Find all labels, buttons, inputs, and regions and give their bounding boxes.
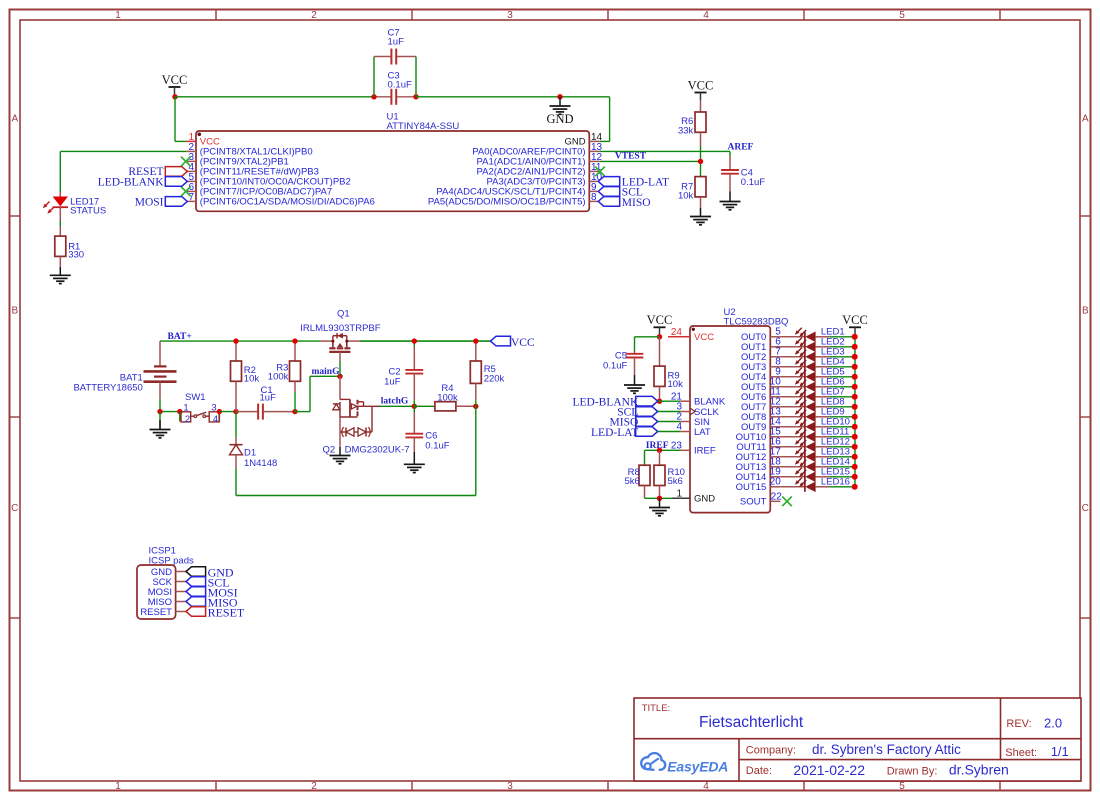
svg-text:Fietsachterlicht: Fietsachterlicht bbox=[699, 714, 804, 731]
wire LED VCC rail bbox=[854, 337, 856, 487]
svg-text:1/1: 1/1 bbox=[1051, 744, 1069, 759]
LED LED4 bbox=[780, 357, 857, 373]
svg-text:Sheet:: Sheet: bbox=[1005, 747, 1037, 759]
svg-text:VCC: VCC bbox=[688, 78, 714, 92]
resistor R7 10k bbox=[678, 177, 706, 208]
svg-text:Drawn By:: Drawn By: bbox=[887, 766, 938, 778]
node R3 top bbox=[292, 338, 297, 343]
svg-text:B: B bbox=[1082, 306, 1089, 317]
ground (U2) bbox=[649, 498, 670, 516]
node C2 top bbox=[412, 338, 417, 343]
node latchG C2 bbox=[412, 404, 417, 409]
wire U1 pin2 to LED17 bbox=[60, 151, 186, 192]
resistor R2 10k bbox=[231, 341, 260, 412]
svg-text:0.1uF: 0.1uF bbox=[388, 79, 412, 90]
wire LED17 to R1 bbox=[59, 221, 61, 226]
net flag SCL (U1) bbox=[598, 187, 643, 199]
svg-text:RESET: RESET bbox=[208, 606, 245, 620]
svg-text:MISO: MISO bbox=[622, 197, 651, 209]
wire R6-R7 bbox=[700, 146, 702, 177]
ground (C4) bbox=[720, 192, 741, 210]
resistor R3 100k bbox=[268, 341, 301, 412]
svg-text:VCC: VCC bbox=[162, 73, 188, 87]
wire VTEST bbox=[599, 160, 700, 162]
no-connect X U1 pin11 bbox=[595, 167, 605, 177]
net flag MISO (U2) bbox=[610, 417, 680, 429]
logo EasyEDA bbox=[641, 753, 728, 774]
node R2 top bbox=[233, 338, 238, 343]
svg-text:mainG: mainG bbox=[312, 367, 341, 377]
IC U1 ATTINY84A-SSU bbox=[186, 112, 602, 212]
svg-text:3: 3 bbox=[507, 10, 513, 21]
net flag RESET bbox=[128, 166, 187, 178]
svg-text:Company:: Company: bbox=[746, 745, 796, 757]
LED LED17 STATUS bbox=[43, 192, 106, 221]
svg-text:IREF: IREF bbox=[694, 446, 716, 457]
transistor Q1 IRLML9303TRPBF bbox=[300, 308, 380, 376]
svg-text:SW1: SW1 bbox=[185, 392, 206, 403]
net flag LED-BLANK (U1) bbox=[98, 176, 188, 188]
wire mainG bbox=[295, 376, 340, 411]
svg-text:VCC: VCC bbox=[694, 332, 714, 343]
capacitor C2 1uF bbox=[384, 341, 423, 406]
svg-text:AREF: AREF bbox=[728, 143, 754, 153]
power flag VCC (R6) bbox=[688, 78, 714, 100]
net flag LED-LAT (U2) bbox=[591, 427, 680, 439]
svg-text:1: 1 bbox=[183, 402, 188, 413]
svg-text:LED-BLANK: LED-BLANK bbox=[98, 176, 164, 188]
svg-text:4: 4 bbox=[213, 414, 218, 425]
net flag MOSI (ICSP) bbox=[186, 586, 238, 600]
LED LED11 bbox=[780, 427, 857, 443]
svg-text:LAT: LAT bbox=[694, 427, 711, 438]
svg-text:BAT+: BAT+ bbox=[168, 332, 192, 342]
node IREF bbox=[657, 448, 662, 453]
svg-text:A: A bbox=[1082, 114, 1089, 125]
LED LED13 bbox=[780, 447, 857, 463]
svg-text:BATTERY18650: BATTERY18650 bbox=[73, 383, 142, 394]
svg-text:100k: 100k bbox=[268, 372, 289, 383]
power flag VCC (LED rail) bbox=[842, 313, 868, 337]
svg-text:A: A bbox=[11, 114, 18, 125]
resistor R6 33k bbox=[678, 100, 706, 146]
net flag MISO (U1) bbox=[598, 197, 650, 209]
LED LED3 bbox=[780, 347, 857, 363]
LED LED7 bbox=[780, 387, 857, 403]
svg-text:Q2: Q2 bbox=[323, 444, 336, 455]
svg-text:OUT15: OUT15 bbox=[736, 482, 767, 493]
svg-text:5: 5 bbox=[899, 10, 905, 21]
svg-text:dr. Sybren's Factory Attic: dr. Sybren's Factory Attic bbox=[812, 742, 961, 757]
svg-text:5: 5 bbox=[899, 781, 905, 792]
svg-text:3: 3 bbox=[211, 402, 216, 413]
svg-text:1uF: 1uF bbox=[388, 36, 405, 47]
ground (C5) bbox=[624, 375, 645, 393]
svg-text:0.1uF: 0.1uF bbox=[741, 177, 765, 188]
net flag GND (ICSP) bbox=[186, 566, 234, 580]
wire VCC rail top bbox=[175, 96, 374, 98]
LED LED2 bbox=[780, 337, 857, 353]
LED LED6 bbox=[780, 377, 857, 393]
net flag MOSI (U1) bbox=[135, 196, 188, 208]
svg-text:22: 22 bbox=[771, 492, 783, 503]
node R3 bottom bbox=[292, 409, 297, 414]
power flag VCC (U1) bbox=[162, 73, 188, 97]
switch SW1 bbox=[177, 392, 219, 425]
svg-text:DMG2302UK-7: DMG2302UK-7 bbox=[345, 444, 410, 455]
capacitor C4 0.1uF bbox=[721, 157, 765, 192]
svg-text:4: 4 bbox=[703, 781, 709, 792]
svg-text:4: 4 bbox=[703, 10, 709, 21]
svg-text:EasyEDA: EasyEDA bbox=[667, 759, 728, 775]
node C3 left bbox=[371, 94, 376, 99]
svg-text:1uF: 1uF bbox=[260, 393, 277, 404]
battery BAT1 BATTERY18650 bbox=[73, 341, 176, 399]
resistor R9 10k bbox=[654, 337, 683, 401]
net label latchG bbox=[381, 396, 409, 406]
node mainG bbox=[337, 374, 342, 379]
ground (R1) bbox=[50, 267, 71, 284]
svg-text:24: 24 bbox=[671, 327, 683, 338]
svg-text:220k: 220k bbox=[484, 373, 505, 384]
ground (battery) bbox=[150, 412, 171, 438]
resistor R8 5k6 bbox=[624, 465, 650, 498]
net label AREF bbox=[728, 143, 754, 153]
svg-text:VCC: VCC bbox=[842, 313, 868, 327]
net label VTEST bbox=[615, 152, 647, 162]
wire rail right of Q1 bbox=[360, 340, 491, 342]
svg-text:REV:: REV: bbox=[1006, 718, 1031, 730]
capacitor C5 0.1uF bbox=[603, 351, 643, 376]
wire AREF bbox=[599, 151, 730, 156]
svg-text:(PCINT6/OC1A/SDA/MOSI/DI/ADC6): (PCINT6/OC1A/SDA/MOSI/DI/ADC6)PA6 bbox=[200, 197, 375, 208]
resistor R10 5k6 bbox=[654, 450, 685, 498]
svg-text:1: 1 bbox=[115, 10, 121, 21]
wire GND row U2 bbox=[645, 497, 673, 499]
svg-text:Q1: Q1 bbox=[337, 308, 350, 319]
svg-text:330: 330 bbox=[68, 249, 84, 260]
svg-text:TITLE:: TITLE: bbox=[642, 703, 671, 714]
wire C7 branch bbox=[374, 57, 416, 97]
capacitor C1 1uF bbox=[236, 385, 295, 420]
svg-text:1N4148: 1N4148 bbox=[244, 458, 277, 469]
svg-text:2: 2 bbox=[311, 781, 317, 792]
net flag VCC (rail) bbox=[491, 336, 535, 349]
svg-text:5k6: 5k6 bbox=[624, 476, 639, 487]
net flag RESET (ICSP) bbox=[186, 606, 245, 620]
ground (R7) bbox=[690, 208, 711, 225]
svg-text:PA5(ADC5/DO/MISO/OC1B/PCINT5): PA5(ADC5/DO/MISO/OC1B/PCINT5) bbox=[428, 197, 586, 208]
LED LED9 bbox=[780, 407, 857, 423]
capacitor C3 0.1uF bbox=[374, 71, 416, 105]
svg-text:10k: 10k bbox=[678, 190, 694, 201]
svg-text:2021-02-22: 2021-02-22 bbox=[793, 762, 865, 778]
wire VCC to U1 pin1 bbox=[175, 97, 186, 142]
svg-text:VTEST: VTEST bbox=[615, 152, 647, 162]
svg-text:1: 1 bbox=[676, 489, 682, 500]
net flag LED-BLANK (U2) bbox=[573, 396, 680, 408]
svg-text:33k: 33k bbox=[678, 126, 694, 137]
LED LED12 bbox=[780, 437, 857, 453]
capacitor C7 1uF bbox=[374, 28, 416, 65]
IC U2 TLC59283DBQ bbox=[668, 307, 788, 513]
node R5 top bbox=[473, 338, 478, 343]
wire BAT+ rail bbox=[160, 340, 491, 342]
wire bottom rail bbox=[236, 406, 476, 495]
node U2 VCC bbox=[657, 334, 662, 339]
svg-text:STATUS: STATUS bbox=[70, 205, 106, 216]
svg-text:B: B bbox=[11, 306, 18, 317]
net flag SCL (U2) bbox=[617, 407, 680, 419]
node VTEST bbox=[698, 159, 703, 164]
node C3 right bbox=[413, 94, 418, 99]
wire IREF bbox=[645, 450, 681, 465]
svg-text:8: 8 bbox=[591, 192, 597, 203]
transistor Q2 DMG2302UK-7 bbox=[323, 376, 410, 455]
svg-text:IRLML9303TRPBF: IRLML9303TRPBF bbox=[300, 323, 380, 334]
net flag SCL (ICSP) bbox=[186, 576, 230, 590]
svg-text:2: 2 bbox=[311, 10, 317, 21]
svg-text:100k: 100k bbox=[437, 392, 458, 403]
node VCC junction at U1 bbox=[172, 94, 177, 99]
node U2 GND bbox=[657, 496, 662, 501]
node latchG R5 bbox=[473, 404, 478, 409]
svg-text:C: C bbox=[11, 503, 18, 514]
no-connect X U1 pin6 bbox=[181, 187, 191, 197]
svg-text:SOUT: SOUT bbox=[740, 497, 767, 508]
svg-text:2.0: 2.0 bbox=[1044, 716, 1062, 731]
svg-text:MOSI: MOSI bbox=[135, 196, 164, 208]
svg-text:0.1uF: 0.1uF bbox=[425, 441, 449, 452]
capacitor C6 0.1uF bbox=[405, 406, 449, 452]
svg-text:3: 3 bbox=[507, 781, 513, 792]
svg-text:C: C bbox=[1082, 503, 1089, 514]
svg-text:20: 20 bbox=[770, 477, 782, 488]
svg-text:dr.Sybren: dr.Sybren bbox=[949, 762, 1009, 778]
no-connect X U1 pin3 bbox=[181, 157, 191, 167]
svg-text:Date:: Date: bbox=[746, 765, 772, 777]
net label IREF bbox=[646, 441, 669, 451]
node GND junction bbox=[557, 94, 562, 99]
svg-text:RESET: RESET bbox=[140, 607, 172, 618]
wire C3 to GND and U1 pin14 bbox=[416, 97, 610, 142]
net flag LED-LAT (U1) bbox=[598, 177, 669, 189]
svg-text:GND: GND bbox=[546, 112, 573, 126]
node R2 bottom bbox=[233, 409, 238, 414]
power flag VCC (U2) bbox=[647, 313, 673, 337]
resistor R4 100k bbox=[414, 383, 476, 411]
LED LED10 bbox=[780, 417, 857, 433]
wire VCC-U2 bbox=[635, 337, 660, 351]
resistor R5 220k bbox=[470, 341, 504, 406]
svg-text:latchG: latchG bbox=[381, 396, 409, 406]
net label mainG bbox=[312, 367, 341, 377]
ground (Q2) bbox=[330, 447, 351, 464]
LED LED15 bbox=[780, 467, 857, 483]
title block bbox=[634, 698, 1081, 781]
svg-text:0.1uF: 0.1uF bbox=[603, 361, 627, 372]
node battery minus bbox=[157, 409, 162, 414]
LED LED14 bbox=[780, 457, 857, 473]
LED LED1 bbox=[780, 327, 857, 343]
ground (top) bbox=[546, 97, 573, 126]
svg-text:VCC: VCC bbox=[647, 313, 673, 327]
resistor R1 330 bbox=[55, 226, 84, 267]
svg-text:10k: 10k bbox=[244, 374, 260, 385]
wire latchG bbox=[380, 405, 414, 407]
net flag MISO (ICSP) bbox=[186, 596, 238, 610]
connector ICSP1 ICSP pads bbox=[137, 546, 194, 620]
svg-text:LED-LAT: LED-LAT bbox=[591, 427, 638, 439]
svg-text:1: 1 bbox=[115, 781, 121, 792]
ground (C6) bbox=[404, 452, 425, 473]
LED LED16 bbox=[780, 477, 857, 493]
LED LED5 bbox=[780, 367, 857, 383]
wire SW1 to R2 node bbox=[219, 411, 236, 413]
svg-text:2: 2 bbox=[185, 414, 190, 425]
svg-text:VCC: VCC bbox=[511, 337, 535, 349]
svg-text:1uF: 1uF bbox=[384, 377, 401, 388]
wire battery minus bbox=[160, 399, 179, 412]
svg-text:10k: 10k bbox=[668, 379, 684, 390]
node SW1 out bbox=[217, 409, 222, 414]
net label BAT+ bbox=[168, 332, 192, 342]
svg-text:5k6: 5k6 bbox=[668, 476, 683, 487]
diode D1 1N4148 bbox=[230, 412, 278, 496]
no-connect X U2 SOUT bbox=[782, 497, 792, 507]
LED LED8 bbox=[780, 397, 857, 413]
svg-text:LED16: LED16 bbox=[821, 477, 850, 488]
node BLANK bbox=[657, 399, 662, 404]
svg-text:GND: GND bbox=[694, 494, 715, 505]
